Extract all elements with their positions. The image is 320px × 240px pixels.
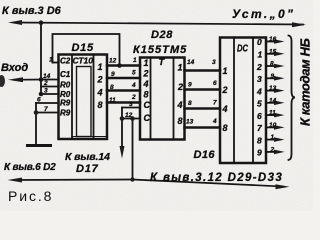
svg-text:1: 1: [49, 57, 53, 64]
svg-text:16: 16: [269, 36, 277, 43]
wire DC out6: [266, 114, 277, 116]
svg-text:C: C: [144, 113, 151, 123]
wire R9 stub pin6: [36, 102, 59, 104]
arrow out0: [274, 39, 285, 44]
arrow left Vhod: [8, 77, 23, 82]
arrow down to pin14 D17: [120, 146, 125, 159]
svg-text:14: 14: [43, 73, 51, 80]
svg-text:2: 2: [43, 80, 48, 87]
wire DC out8: [266, 139, 277, 141]
node junction output1 pin12: [117, 63, 122, 68]
svg-text:2: 2: [97, 75, 103, 85]
scan smudge left edge: [0, 75, 5, 87]
arrow left to pin6 D2: [8, 178, 23, 183]
node junction Vhod/C1: [39, 77, 44, 82]
svg-text:11: 11: [269, 110, 276, 117]
wire D15 out2 to D28 in2: [107, 77, 140, 80]
svg-text:14: 14: [187, 59, 195, 66]
svg-text:4: 4: [97, 88, 103, 98]
arrow left to pin3 D6: [8, 20, 22, 25]
wire C2 stub pin1: [53, 62, 59, 64]
wire D15 out4 to D28 in4: [107, 89, 140, 92]
wire bottom line to D2 and D29-D33: [14, 180, 283, 187]
svg-text:R0: R0: [60, 81, 71, 90]
svg-text:4: 4: [256, 86, 262, 96]
svg-text:8: 8: [98, 100, 103, 110]
D28 left divider: [150, 58, 152, 140]
svg-text:R9: R9: [60, 109, 71, 118]
svg-text:Вход: Вход: [1, 62, 28, 74]
wire vertical from top to R0 pins: [40, 23, 42, 94]
svg-text:С2: С2: [60, 57, 71, 66]
wire Vhod arrow line: [14, 79, 41, 81]
wire vertical R9 to ground: [35, 103, 37, 144]
svg-text:1: 1: [258, 50, 263, 60]
D15 left column divider: [71, 55, 73, 140]
svg-text:3: 3: [44, 88, 48, 95]
wire DC out2: [266, 65, 277, 67]
svg-text:9: 9: [188, 82, 192, 89]
svg-text:4: 4: [177, 100, 183, 110]
svg-text:К выв.3.12 D29-D33: К выв.3.12 D29-D33: [150, 172, 283, 184]
svg-text:5: 5: [132, 70, 136, 77]
svg-text:6: 6: [37, 97, 41, 104]
svg-text:6: 6: [257, 111, 262, 121]
latch D28 box: [140, 58, 185, 140]
svg-text:R9: R9: [60, 99, 71, 108]
svg-text:2: 2: [256, 62, 262, 72]
svg-text:1: 1: [133, 57, 137, 64]
wire DC out7: [266, 126, 277, 128]
svg-text:1: 1: [98, 62, 103, 72]
svg-text:13: 13: [186, 119, 194, 126]
arrow out8: [274, 137, 285, 142]
svg-text:8: 8: [257, 135, 262, 145]
svg-text:4: 4: [143, 79, 149, 89]
wire strobe vertical to bottom line: [132, 119, 134, 180]
svg-text:4: 4: [131, 82, 136, 89]
D28 right divider: [173, 58, 175, 140]
svg-text:1: 1: [144, 58, 149, 68]
node junction C pins: [120, 116, 125, 121]
node junction R0 pin3: [39, 92, 44, 97]
svg-text:2: 2: [131, 94, 136, 101]
svg-text:2: 2: [222, 85, 228, 95]
svg-text:К155ТМ5: К155ТМ5: [133, 44, 187, 56]
svg-text:3: 3: [212, 59, 216, 66]
DC left divider: [233, 38, 235, 164]
arrow out5: [274, 101, 285, 106]
counter D15 box: [59, 55, 108, 140]
svg-text:К выв.6 D2: К выв.6 D2: [4, 162, 56, 173]
svg-text:Рис.8: Рис.8: [8, 188, 53, 204]
wire top horizontal (reset / ust 0 line): [14, 23, 303, 25]
svg-text:6: 6: [213, 80, 217, 87]
arrow out1: [274, 52, 285, 57]
wire DC out3: [266, 77, 277, 79]
svg-text:14: 14: [269, 97, 277, 104]
node junction top-left: [39, 20, 44, 25]
svg-text:13: 13: [269, 85, 277, 92]
D15 right column divider: [93, 55, 95, 140]
wire DC out1: [266, 53, 277, 55]
svg-text:5: 5: [257, 99, 262, 109]
svg-text:3: 3: [129, 101, 133, 108]
wire D28 out2 to DC: [185, 88, 221, 91]
wire D28 out1 to DC: [185, 69, 221, 72]
svg-text:1: 1: [223, 66, 228, 76]
arrow out2: [274, 64, 285, 69]
svg-text:К выв.3 D6: К выв.3 D6: [2, 5, 62, 17]
D15 inner bottom line: [72, 136, 107, 138]
wire R9 stub pin7: [36, 112, 59, 114]
arrow out9: [274, 150, 285, 155]
svg-text:8: 8: [178, 116, 183, 126]
svg-text:К катодам НБ: К катодам НБ: [297, 39, 312, 126]
svg-text:8: 8: [144, 90, 149, 100]
svg-text:D28: D28: [151, 29, 173, 41]
wire strobe vertical to D17: [121, 108, 123, 153]
svg-text:9: 9: [271, 73, 275, 80]
svg-text:4: 4: [222, 104, 228, 114]
svg-text:2: 2: [143, 69, 149, 79]
svg-text:10: 10: [269, 122, 277, 129]
svg-text:C: C: [144, 100, 151, 110]
wire DC out9: [266, 151, 277, 153]
svg-text:С1: С1: [60, 70, 71, 79]
svg-text:8: 8: [188, 100, 192, 107]
svg-text:D16: D16: [194, 149, 216, 161]
node junction strobe top: [130, 116, 135, 121]
wire C2 feedback loop from pin12 to pin1: [53, 34, 120, 66]
arrow out6: [274, 113, 285, 118]
wire D15 out1 to D28 in1: [107, 64, 140, 67]
arrow right to D29-D33: [276, 184, 290, 189]
svg-text:1: 1: [271, 134, 275, 141]
svg-text:СТ10: СТ10: [73, 56, 94, 66]
wire R0 stub pin3: [41, 93, 59, 95]
wire R0 stub pin2: [41, 86, 59, 88]
svg-text:7: 7: [44, 106, 48, 113]
svg-text:DC: DC: [237, 43, 248, 55]
svg-text:8: 8: [223, 123, 228, 133]
svg-text:7: 7: [213, 100, 217, 107]
svg-text:4: 4: [212, 118, 217, 125]
svg-text:0: 0: [257, 37, 262, 47]
svg-text:Уст.„0": Уст.„0": [232, 7, 295, 21]
wire C1 stub pin14: [41, 79, 59, 81]
node junction bottom strobe: [130, 177, 134, 181]
wire D28 out4 to DC: [185, 107, 221, 110]
svg-text:8: 8: [270, 61, 274, 68]
decoder D16 box: [220, 38, 266, 164]
arrow right ust 0: [292, 22, 306, 27]
DC right divider: [252, 38, 254, 164]
wire DC out5: [266, 102, 277, 104]
wire DC out4: [266, 90, 277, 92]
arrow out7: [274, 125, 285, 130]
brace outputs: [289, 36, 296, 161]
D15 inner core rectangle: [77, 67, 92, 137]
svg-text:3: 3: [257, 74, 262, 84]
svg-text:D17: D17: [76, 163, 99, 175]
ground: [28, 144, 51, 147]
arrow out3: [274, 76, 285, 81]
wire DC out0: [266, 41, 277, 43]
wire D28 C stub pin12: [122, 118, 140, 120]
svg-text:К выв.14: К выв.14: [65, 151, 110, 163]
svg-text:2: 2: [177, 82, 183, 92]
node junction R9 pin7: [34, 110, 39, 115]
arrow out4: [274, 88, 285, 93]
svg-text:12: 12: [109, 58, 117, 65]
wire D28 out8 to DC: [185, 126, 221, 129]
svg-text:D15: D15: [72, 42, 94, 54]
wire D15 out8 to D28 in8: [107, 101, 140, 104]
svg-text:2: 2: [270, 146, 275, 153]
svg-text:1: 1: [178, 63, 183, 73]
svg-text:15: 15: [269, 48, 277, 55]
wire D28 C stub pin3: [122, 107, 140, 109]
svg-text:9: 9: [257, 148, 262, 158]
